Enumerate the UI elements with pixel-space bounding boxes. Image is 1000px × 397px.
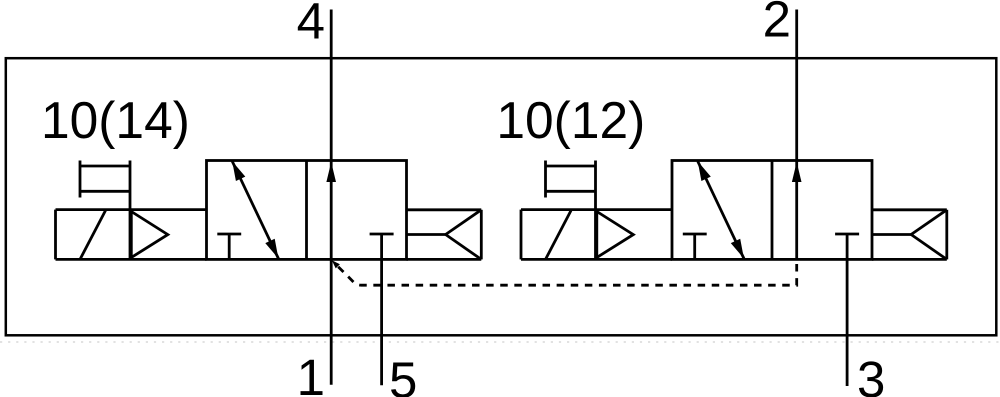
- solenoid box with diagonal (valve 2): [521, 210, 672, 260]
- svg-text:4: 4: [297, 0, 325, 50]
- svg-text:10(12): 10(12): [496, 91, 645, 149]
- solenoid coil armature symbol (valve 2): [546, 161, 596, 211]
- port label 2: [763, 0, 791, 48]
- valve body (two position boxes) (valve 2): [672, 161, 872, 260]
- svg-text:1: 1: [297, 349, 325, 397]
- svg-text:3: 3: [857, 351, 885, 397]
- enclosure (sub-base outline): [0, 58, 1000, 342]
- pilot triangle (valve 2): [597, 212, 634, 258]
- port 5 line (valve 1): [380, 234, 383, 385]
- port 3 line (valve 2): [846, 234, 849, 386]
- air-spring return symbol (valve 2): [872, 210, 947, 260]
- pilot line arrowhead at port 1 junction: [332, 260, 340, 268]
- blocked port T, right box (valve 2): [835, 233, 859, 236]
- pilot triangle (valve 1): [131, 212, 168, 258]
- port label 3: [857, 351, 885, 397]
- svg-text:5: 5: [389, 351, 417, 397]
- blocked port T, left box (valve 1): [217, 234, 241, 259]
- flow path arrow, exhaust position (valve 1): [232, 161, 278, 258]
- pilot label 10(12): [496, 91, 645, 149]
- upward flow arrowhead, right box (valve 2): [792, 162, 802, 182]
- port 2 line (valve 2): [795, 10, 798, 260]
- valve body (two position boxes) (valve 1): [207, 161, 407, 260]
- svg-text:2: 2: [763, 0, 791, 48]
- blocked port T, left box (valve 2): [683, 234, 707, 259]
- solenoid coil armature symbol (valve 1): [80, 161, 130, 211]
- port 4/1 line (through valve 1): [330, 10, 333, 385]
- solenoid box with diagonal (valve 1): [56, 210, 207, 260]
- port label 4: [297, 0, 325, 50]
- port label 5: [389, 351, 417, 397]
- port label 1: [297, 349, 325, 397]
- pilot label 10(14): [41, 91, 190, 149]
- flow path arrow, exhaust position (valve 2): [698, 161, 744, 258]
- svg-text:10(14): 10(14): [41, 91, 190, 149]
- blocked port T, right box (valve 1): [370, 233, 394, 236]
- dashed pilot control line 12: [338, 261, 797, 285]
- upward flow arrowhead, right box (valve 1): [326, 162, 336, 182]
- air-spring return symbol (valve 1): [407, 210, 482, 260]
